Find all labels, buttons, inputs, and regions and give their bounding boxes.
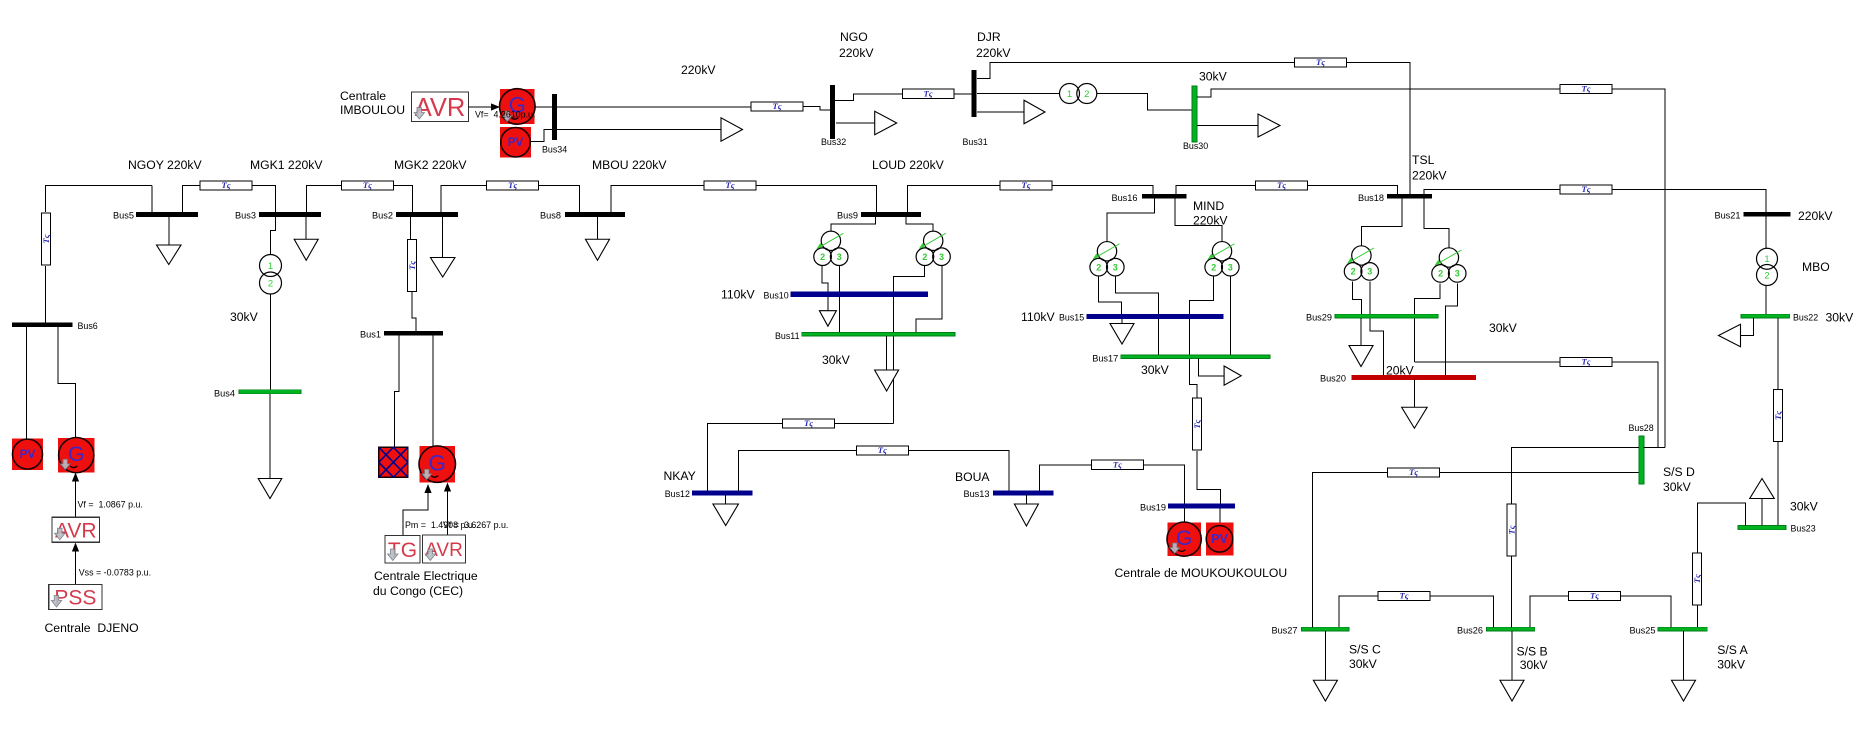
- label 30kV Bus17: [1141, 363, 1170, 377]
- svg-text:Centrale de MOUKOUKOULOU: Centrale de MOUKOUKOULOU: [1115, 566, 1288, 580]
- bus Bus3 (MGK1 220kV): [259, 212, 321, 217]
- label Bus22: [1793, 313, 1818, 323]
- label Bus3: [235, 211, 256, 221]
- label Bus13: [963, 489, 989, 499]
- label DJR: [977, 30, 1001, 44]
- svg-text:S/S B: S/S B: [1517, 644, 1548, 658]
- svg-text:Bus5: Bus5: [113, 211, 134, 221]
- wire Bus1 to G CEC: [432, 336, 434, 447]
- label Vf DJENO: [78, 500, 143, 510]
- transmission line TL1 Bus5-Bus3: [200, 180, 252, 190]
- label 220kV IMBOULOU line: [681, 63, 716, 77]
- svg-text:Tς: Tς: [1192, 419, 1202, 428]
- svg-text:220kV: 220kV: [1798, 209, 1833, 223]
- wire TL9 to Bus31: [954, 93, 972, 95]
- load on Bus12: [713, 495, 739, 525]
- bus Bus6 (DJENO 220kV): [12, 323, 73, 328]
- wire TL3 to Bus8: [539, 186, 580, 213]
- label Bus20: [1320, 374, 1346, 384]
- wire Bus2 right stub to TL3: [441, 186, 487, 213]
- transmission line TL2 Bus3-Bus2: [341, 180, 393, 190]
- wire Bus31 top to DJR-TSL line: [977, 63, 1294, 79]
- svg-text:Tς: Tς: [508, 180, 517, 190]
- svg-text:S/S C: S/S C: [1349, 643, 1381, 657]
- transformer TSL-left (3-winding): [1344, 246, 1378, 280]
- label Bus4: [214, 388, 235, 398]
- svg-text:3: 3: [1455, 269, 1460, 279]
- svg-text:MBO: MBO: [1802, 260, 1830, 274]
- bus Bus29 (TSL 30kV): [1335, 314, 1438, 318]
- svg-text:NKAY: NKAY: [664, 469, 696, 483]
- bus Bus5 (NGOY 220kV): [136, 212, 198, 217]
- load on Bus27: [1313, 631, 1337, 701]
- bus Bus18 (TSL 220kV): [1387, 194, 1432, 199]
- label S/S D: [1663, 465, 1695, 479]
- label MIND: [1193, 199, 1224, 213]
- wire Bus19 to G MOUKOU: [1184, 508, 1186, 522]
- generator G box DJENO: [58, 438, 95, 473]
- generator PV box MOUKOUKOULOU: [1206, 522, 1234, 555]
- svg-text:2: 2: [1084, 89, 1089, 100]
- svg-text:Bus31: Bus31: [963, 137, 988, 147]
- svg-text:Bus28: Bus28: [1629, 423, 1654, 433]
- svg-text:Bus18: Bus18: [1358, 193, 1384, 203]
- svg-text:2: 2: [1764, 270, 1769, 281]
- svg-text:Bus23: Bus23: [1791, 524, 1816, 534]
- bus Bus1 (CEC 220kV): [384, 331, 443, 336]
- generator PV box DJENO: [12, 439, 43, 470]
- transformer DJR (2-winding): [1060, 84, 1097, 104]
- wire TL18 to Bus23: [1777, 441, 1779, 526]
- bus Bus21 (220kV): [1744, 212, 1791, 216]
- transmission line TL14 BOUA-Bus19: [1091, 459, 1143, 469]
- wire TL4 to Bus9: [756, 186, 876, 213]
- label Centrale de MOUKOUKOULOU: [1115, 566, 1288, 580]
- wire ties into Bus28: [1644, 446, 1666, 448]
- transmission line TL17 TSL-S/SD: [1560, 357, 1612, 367]
- label Bus34: [542, 145, 567, 155]
- wire Bus25 to TL20: [1621, 596, 1671, 627]
- wire TL to Bus6: [45, 266, 47, 323]
- load on Bus29: [1349, 318, 1373, 367]
- label MIND 220kV: [1193, 213, 1228, 227]
- svg-text:du Congo (CEC): du Congo (CEC): [373, 584, 463, 598]
- svg-text:NGOY 220kV: NGOY 220kV: [128, 158, 202, 172]
- svg-text:PV: PV: [508, 137, 524, 149]
- synchronous condenser box CEC: [379, 447, 408, 477]
- transmission line TL16 Bus18-Bus21: [1560, 184, 1612, 194]
- bus Bus10 (LOUD 110kV): [791, 292, 927, 297]
- label 30kV S/S C: [1349, 657, 1378, 671]
- load on Bus4: [258, 394, 282, 499]
- svg-text:Tς: Tς: [363, 180, 372, 190]
- wire TL16 to Bus21: [1612, 190, 1766, 213]
- svg-text:3: 3: [1367, 267, 1372, 277]
- wire Bus23 to TL19: [1697, 503, 1745, 553]
- label 30kV Bus22: [1826, 311, 1855, 325]
- label Bus21: [1714, 211, 1740, 221]
- svg-text:2: 2: [1351, 267, 1356, 277]
- control block AVR IMBOULOU: [412, 92, 469, 122]
- bus Bus22 (MBO 30kV): [1741, 314, 1790, 318]
- label du Congo (CEC): [373, 584, 463, 598]
- svg-text:1: 1: [1764, 254, 1769, 265]
- wire NKAY line from Bus11 drop: [835, 423, 894, 425]
- bus Bus26 (S/S B 30kV): [1487, 627, 1535, 631]
- svg-text:PV: PV: [1211, 532, 1228, 546]
- label Bus11: [775, 331, 800, 341]
- bus Bus20 (TSL 20kV): [1352, 375, 1476, 379]
- svg-text:30kV: 30kV: [1663, 480, 1692, 494]
- wire Bus16 right stub to TL6: [1176, 186, 1256, 195]
- svg-text:Tς: Tς: [1021, 180, 1030, 190]
- arrow AVR to G DJENO: [72, 473, 79, 518]
- label TSL 220kV: [1412, 169, 1447, 183]
- wire MIND-right w3 to Bus17: [1230, 277, 1232, 355]
- wire Bus12 to TL13: [739, 451, 857, 492]
- wire Bus3 to transformer MGK1: [271, 217, 276, 255]
- load on Bus22: [1719, 318, 1754, 347]
- bus Bus25 (S/S A 30kV): [1658, 627, 1707, 631]
- svg-text:TSL: TSL: [1412, 153, 1435, 167]
- svg-text:3: 3: [1113, 262, 1118, 272]
- wire Bus19 to PV MOUKOU: [1219, 508, 1221, 522]
- bus Bus12 (NKAY 110kV): [692, 491, 752, 495]
- svg-text:Vss = -0.0783 p.u.: Vss = -0.0783 p.u.: [79, 568, 151, 578]
- svg-text:Tς: Tς: [407, 261, 417, 270]
- wire Bus9 to transformer LOUD-left: [831, 217, 876, 231]
- svg-text:2: 2: [922, 252, 927, 262]
- wire stub chain to Bus5 left: [151, 186, 153, 213]
- generator G box IMBOULOU: [500, 89, 536, 125]
- label Bus10: [764, 291, 789, 301]
- svg-text:Tς: Tς: [725, 180, 734, 190]
- svg-text:MBOU 220kV: MBOU 220kV: [592, 158, 667, 172]
- label Bus19: [1140, 503, 1166, 513]
- svg-text:220kV: 220kV: [839, 46, 874, 60]
- wire TL15 to Bus19: [1197, 451, 1221, 504]
- svg-text:Vf = 3.6267 p.u.: Vf = 3.6267 p.u.: [443, 520, 508, 530]
- svg-text:Bus30: Bus30: [1183, 141, 1208, 151]
- bus Bus2 (MGK2 220kV): [396, 212, 458, 217]
- svg-text:Tς: Tς: [1581, 84, 1590, 94]
- label 30kV MGK1: [230, 310, 259, 324]
- wire Bus27 to TL22: [1313, 473, 1388, 628]
- load on Bus23 (up): [1750, 479, 1775, 526]
- svg-text:S/S D: S/S D: [1663, 465, 1695, 479]
- wire Bus2 down to TL7: [410, 217, 412, 239]
- wire Bus18 top to Bus21: [1424, 190, 1560, 195]
- transformer MGK1 (2-winding): [260, 255, 282, 295]
- load on Bus3: [294, 217, 318, 260]
- label Vf CEC (overlapping): [443, 520, 508, 530]
- svg-text:Bus32: Bus32: [821, 137, 846, 147]
- wire Bus16 to transformer MIND-right: [1175, 199, 1222, 242]
- label Bus16: [1111, 193, 1137, 203]
- wire TL22 to Bus28: [1440, 472, 1639, 474]
- wire Bus16 to transformer MIND-left: [1107, 199, 1155, 242]
- svg-text:30kV: 30kV: [1349, 657, 1378, 671]
- wire TL5 to Bus16: [1052, 186, 1153, 195]
- svg-text:Tς: Tς: [1507, 525, 1517, 534]
- svg-text:3: 3: [939, 252, 944, 262]
- label Bus5: [113, 211, 134, 221]
- wire Bus3 right stub to TL2: [307, 186, 342, 213]
- bus Bus15 (MIND 110kV): [1087, 314, 1223, 318]
- wire TL7 to Bus1: [412, 292, 416, 331]
- svg-text:Bus13: Bus13: [963, 489, 989, 499]
- svg-text:30kV: 30kV: [822, 353, 851, 367]
- control block AVR DJENO: [52, 517, 100, 542]
- load on Bus17 (right): [1199, 359, 1242, 386]
- label MGK2 220kV: [394, 158, 467, 172]
- wire Bus21 to transformer MBO: [1765, 216, 1767, 248]
- wire TL2 to Bus2: [393, 186, 412, 213]
- label Bus12: [665, 489, 690, 499]
- svg-text:Bus15: Bus15: [1059, 313, 1084, 323]
- label Bus17: [1092, 353, 1118, 363]
- svg-text:Tς: Tς: [221, 180, 230, 190]
- bus Bus9 (LOUD 220kV): [861, 212, 921, 217]
- label Bus29: [1306, 313, 1332, 323]
- bus Bus31 (DJR 220kV, vertical): [972, 70, 977, 117]
- wire TL19 to Bus25: [1696, 605, 1698, 628]
- wire transformer MGK1 to Bus4: [270, 294, 272, 390]
- arrow AVR to G IMBOULOU: [469, 103, 501, 110]
- arrow TG to G CEC: [403, 484, 432, 536]
- transmission line TL6 Bus16-Bus18: [1256, 180, 1308, 190]
- label 20kV: [1386, 363, 1415, 377]
- wire chain NGOY segment + drop to Bus6 line: [46, 186, 153, 213]
- label Vf IMBOULOU: [475, 110, 535, 120]
- transmission line TL4 Bus8-Bus9: [704, 180, 756, 190]
- svg-text:Bus12: Bus12: [665, 489, 690, 499]
- wire TL23 to Bus26: [1511, 556, 1513, 627]
- svg-text:S/S A: S/S A: [1717, 643, 1748, 657]
- wire TSL-left w2 to Bus29: [1353, 281, 1362, 314]
- svg-text:1: 1: [1067, 89, 1072, 100]
- bus Bus30 (30kV, vertical): [1192, 86, 1197, 142]
- label 30kV Bus30: [1199, 70, 1228, 84]
- wire G IMBOULOU to Bus34 and TL8: [535, 106, 751, 108]
- svg-text:Bus22: Bus22: [1793, 313, 1818, 323]
- svg-text:220kV: 220kV: [1412, 169, 1447, 183]
- svg-text:30kV: 30kV: [1520, 658, 1549, 672]
- bus Bus28 (S/S D 30kV, vertical): [1639, 436, 1644, 484]
- svg-text:Tς: Tς: [1773, 411, 1783, 420]
- svg-text:G: G: [68, 443, 85, 466]
- svg-text:Tς: Tς: [772, 101, 781, 111]
- svg-text:Tς: Tς: [1399, 591, 1408, 601]
- svg-text:3: 3: [1228, 262, 1233, 272]
- label MBOU 220kV: [592, 158, 667, 172]
- load on Bus11: [875, 336, 899, 391]
- svg-text:BOUA: BOUA: [955, 470, 990, 484]
- label Vss DJENO: [79, 568, 151, 578]
- generator G box CEC: [419, 446, 456, 483]
- wire Bus26 to TL21: [1431, 596, 1494, 627]
- transmission line TL11 Bus30-S/SD: [1560, 84, 1612, 94]
- label 30kV S/SD: [1663, 480, 1692, 494]
- transmission line TL5 Bus9-Bus16: [1000, 180, 1052, 190]
- wire TL20 to Bus26: [1530, 596, 1568, 627]
- svg-text:Tς: Tς: [1692, 574, 1702, 583]
- label DJR 220kV: [976, 46, 1011, 60]
- label Bus26: [1457, 626, 1483, 636]
- label Pm CEC: [405, 520, 475, 530]
- wire LOUD-right w2 to Bus10/NKAY: [894, 266, 925, 423]
- transformer TSL-right (3-winding): [1432, 248, 1466, 282]
- wire Bus13 to TL14: [1040, 465, 1092, 491]
- transmission line TL15 Bus17-Bus19 (vertical): [1192, 398, 1202, 450]
- load on Bus8: [586, 217, 610, 260]
- svg-text:Bus6: Bus6: [78, 321, 98, 331]
- svg-text:MGK1 220kV: MGK1 220kV: [250, 158, 323, 172]
- transformer MBO (2-winding): [1757, 248, 1778, 285]
- svg-text:Bus26: Bus26: [1457, 626, 1483, 636]
- bus Bus4 (MGK1 30kV): [239, 390, 301, 394]
- wire Bus28 to S/SB line: [1512, 447, 1640, 504]
- label Bus32: [821, 137, 846, 147]
- label 110kV Bus15: [1021, 310, 1056, 324]
- load on Bus34 line: [721, 118, 743, 142]
- load on Bus13: [1014, 495, 1038, 526]
- wire Bus30 top to 30kV tie line: [1197, 89, 1560, 97]
- bus Bus13 (BOUA 110kV): [993, 491, 1053, 495]
- svg-text:220kV: 220kV: [681, 63, 716, 77]
- svg-text:30kV: 30kV: [1489, 321, 1518, 335]
- wire Bus8 right stub to TL4: [611, 186, 704, 213]
- transmission line TL12 Bus11-NKAY: [783, 418, 835, 428]
- label Bus31: [963, 137, 988, 147]
- svg-text:2: 2: [268, 278, 273, 289]
- wire TSL-left w3 to Bus20: [1370, 281, 1383, 375]
- label Bus27: [1271, 626, 1297, 636]
- svg-text:Centrale DJENO: Centrale DJENO: [45, 621, 139, 635]
- svg-text:Tς: Tς: [804, 418, 813, 428]
- generator G box MOUKOUKOULOU: [1167, 522, 1201, 556]
- bus Bus23 (30kV): [1738, 526, 1786, 530]
- label Bus15: [1059, 313, 1084, 323]
- transmission line TL3 Bus2-Bus8: [487, 180, 539, 190]
- svg-text:Bus17: Bus17: [1092, 353, 1118, 363]
- svg-text:Tς: Tς: [1409, 467, 1418, 477]
- wire TSL-right w2 to 30kV tie: [1414, 283, 1440, 362]
- load on Bus20: [1402, 379, 1428, 428]
- svg-text:Bus20: Bus20: [1320, 374, 1346, 384]
- wire LOUD-left w2 to Bus10: [822, 266, 828, 292]
- svg-text:Centrale: Centrale: [340, 89, 386, 103]
- wire Bus6 to PV DJENO: [25, 327, 27, 439]
- wire TL10 to Bus18: [1347, 63, 1410, 195]
- wire Bus5 right stub to TL1: [183, 186, 200, 213]
- svg-text:2: 2: [1438, 269, 1443, 279]
- label Bus9: [837, 211, 858, 221]
- svg-text:220kV: 220kV: [976, 46, 1011, 60]
- svg-text:3: 3: [837, 252, 842, 262]
- bus Bus16 (MIND 220kV): [1142, 194, 1187, 199]
- wire TL11 to S/SD corner: [1612, 89, 1665, 447]
- arrow PSS to AVR DJENO: [72, 543, 79, 585]
- svg-text:G: G: [429, 450, 446, 475]
- label 110kV Bus10: [721, 288, 756, 302]
- wire Bus18 to transformer TSL-right: [1424, 199, 1449, 248]
- wire transformer MBO to Bus22: [1765, 286, 1767, 315]
- svg-text:Bus27: Bus27: [1271, 626, 1297, 636]
- svg-text:30kV: 30kV: [1790, 500, 1819, 514]
- transmission line TL13 NKAY-BOUA: [856, 445, 908, 455]
- svg-text:1: 1: [268, 261, 273, 272]
- svg-text:Bus1: Bus1: [360, 330, 381, 340]
- wire Bus31 to transformer DJR: [977, 93, 1060, 95]
- svg-text:Bus34: Bus34: [542, 145, 567, 155]
- label S/S A: [1717, 643, 1748, 657]
- label Bus25: [1629, 626, 1655, 636]
- bus Bus17 (MIND 30kV): [1121, 355, 1270, 359]
- label NKAY: [664, 469, 696, 483]
- transformer LOUD-left (3-winding): [814, 231, 848, 265]
- label Bus1: [360, 330, 381, 340]
- control block PSS DJENO: [49, 585, 102, 610]
- wire TSL-right w3 to Bus20: [1445, 283, 1457, 375]
- svg-text:PSS: PSS: [54, 587, 96, 610]
- svg-text:Tς: Tς: [1590, 591, 1599, 601]
- svg-text:PV: PV: [20, 447, 36, 461]
- generator PV box IMBOULOU: [500, 127, 531, 158]
- wire transformer DJR to Bus30: [1097, 94, 1192, 111]
- load on Bus30: [1197, 114, 1280, 137]
- svg-text:AVR: AVR: [415, 94, 466, 122]
- bus Bus11 (LOUD 30kV): [802, 332, 955, 336]
- label IMBOULOU: [340, 103, 405, 117]
- transmission line TL22 S/SC-S/SD: [1388, 467, 1440, 477]
- transformer MIND-right (3-winding): [1205, 242, 1239, 276]
- label BOUA: [955, 470, 990, 484]
- svg-text:MGK2 220kV: MGK2 220kV: [394, 158, 467, 172]
- svg-text:DJR: DJR: [977, 30, 1001, 44]
- svg-text:MIND: MIND: [1193, 199, 1224, 213]
- label S/S B: [1517, 644, 1548, 658]
- label 30kV Bus11: [822, 353, 851, 367]
- label 220kV Bus21: [1798, 209, 1833, 223]
- label LOUD 220kV: [872, 158, 945, 172]
- label Bus8: [540, 211, 561, 221]
- svg-text:30kV: 30kV: [1199, 70, 1228, 84]
- wire TL8 to Bus32: [803, 107, 830, 111]
- svg-text:Bus16: Bus16: [1111, 193, 1137, 203]
- bus Bus19 (MOUKOUKOULOU 110kV): [1168, 504, 1234, 508]
- svg-text:IMBOULOU: IMBOULOU: [340, 103, 405, 117]
- load on Bus2: [430, 217, 455, 277]
- wire LOUD-left w3 to Bus11: [839, 266, 841, 332]
- svg-text:LOUD 220kV: LOUD 220kV: [872, 158, 945, 172]
- label Centrale Electrique: [374, 569, 478, 583]
- svg-text:Bus9: Bus9: [837, 211, 858, 221]
- svg-text:Bus21: Bus21: [1714, 211, 1740, 221]
- load on Bus32: [836, 111, 897, 135]
- transmission line TL23 S/SD-S/SB (vertical): [1507, 504, 1517, 556]
- wire TSL 30kV tie to TL17: [1414, 361, 1560, 363]
- svg-text:Tς: Tς: [878, 445, 887, 455]
- wire TL21 to Bus27: [1339, 596, 1378, 627]
- svg-text:Tς: Tς: [1581, 357, 1590, 367]
- bus Bus27 (S/S C 30kV): [1302, 627, 1350, 631]
- transmission line TL21 S/SC-S/SB: [1378, 591, 1430, 601]
- label S/S C: [1349, 643, 1381, 657]
- control block TG CEC: [385, 536, 420, 564]
- wire TL1 to Bus3: [253, 186, 276, 213]
- label 30kV Bus23: [1790, 500, 1819, 514]
